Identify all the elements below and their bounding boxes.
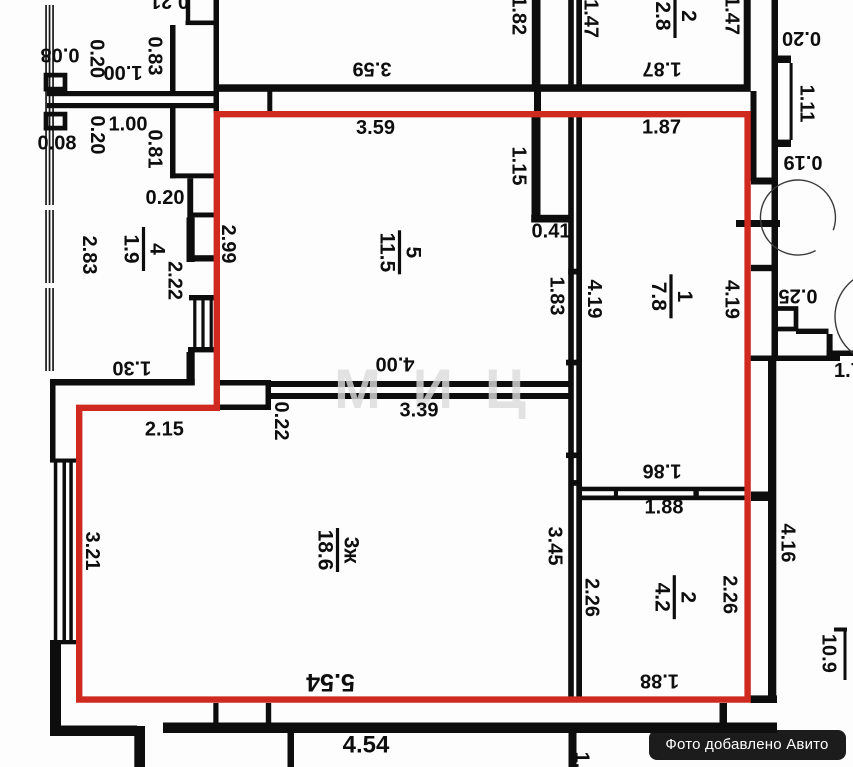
svg-text:0.08: 0.08 bbox=[38, 132, 77, 154]
svg-text:3.59: 3.59 bbox=[353, 58, 392, 80]
room5/3zh double wall bottom line bbox=[270, 393, 570, 399]
walls top-middle bbox=[214, 0, 776, 699]
door ticks bbox=[751, 178, 777, 185]
svg-text:3.59: 3.59 bbox=[356, 117, 395, 139]
fraction bar 10.9 bbox=[844, 628, 847, 680]
svg-text:7.8: 7.8 bbox=[647, 282, 670, 312]
walls top-left bbox=[47, 0, 219, 386]
room2 top wall line2 bbox=[580, 496, 748, 501]
hatch bars bbox=[193, 300, 196, 348]
room label 5/11.5 (180) bbox=[375, 230, 424, 274]
svg-text:2.15: 2.15 bbox=[145, 418, 184, 440]
niche top wall bbox=[170, 173, 214, 178]
svg-text:10.9: 10.9 bbox=[818, 634, 840, 673]
svg-text:0.81: 0.81 bbox=[144, 130, 166, 169]
svg-text:1.88: 1.88 bbox=[640, 670, 679, 692]
svg-text:0.22: 0.22 bbox=[270, 402, 292, 441]
svg-text:4.54: 4.54 bbox=[343, 731, 390, 758]
wall beside red bbox=[751, 91, 757, 181]
svg-text:11.5: 11.5 bbox=[375, 232, 398, 272]
wall vertical x172 lower bbox=[170, 108, 176, 178]
bottom wall main bbox=[163, 723, 777, 734]
svg-text:1.11: 1.11 bbox=[796, 85, 818, 123]
wall stub x572 bbox=[569, 733, 577, 767]
door arc right edge bbox=[835, 271, 853, 363]
wall stub top bbox=[186, 0, 190, 25]
hatch bottom tick bbox=[188, 347, 214, 352]
svg-text:0.20: 0.20 bbox=[86, 116, 108, 155]
svg-text:1.47: 1.47 bbox=[721, 0, 743, 35]
jog rect right bbox=[266, 380, 272, 410]
svg-text:2.22: 2.22 bbox=[164, 261, 186, 300]
tick 0.41 bbox=[531, 215, 571, 223]
svg-text:0.21: 0.21 bbox=[150, 0, 189, 12]
svg-text:1.30: 1.30 bbox=[112, 357, 151, 379]
wall right of red y496 bbox=[751, 492, 775, 502]
svg-text:2: 2 bbox=[676, 591, 699, 603]
jog rect top bbox=[220, 380, 272, 386]
svg-text:1.15: 1.15 bbox=[508, 147, 530, 186]
niche square right bbox=[776, 309, 797, 330]
svg-text:1.7: 1.7 bbox=[834, 360, 853, 382]
shaft walls below red bbox=[568, 117, 574, 699]
wall v x139 bbox=[134, 726, 145, 767]
hatch top tick bbox=[189, 295, 214, 300]
window 1.11 line bbox=[790, 63, 793, 140]
svg-text:2.99: 2.99 bbox=[217, 225, 239, 264]
tick below red x723 bbox=[720, 703, 728, 729]
svg-text:2.8: 2.8 bbox=[651, 1, 674, 31]
svg-text:3.21: 3.21 bbox=[81, 532, 103, 571]
shaft wall above bbox=[568, 0, 574, 86]
room4 bottom wall bbox=[50, 379, 195, 386]
wall h y358 bbox=[749, 356, 840, 362]
door arc room1 bbox=[760, 180, 835, 255]
svg-text:5.54: 5.54 bbox=[306, 668, 355, 696]
room label 2/4.2 (180) bbox=[650, 575, 699, 619]
room2 wall connectors bbox=[614, 487, 618, 500]
svg-text:3.39: 3.39 bbox=[400, 399, 439, 421]
svg-text:1.86: 1.86 bbox=[643, 460, 682, 482]
tick x270 bbox=[267, 91, 272, 114]
svg-text:1.87: 1.87 bbox=[643, 58, 682, 80]
svg-text:4.2: 4.2 bbox=[650, 583, 673, 612]
svg-text:0.08: 0.08 bbox=[41, 44, 80, 66]
svg-text:1.83: 1.83 bbox=[546, 277, 568, 316]
svg-text:2.26: 2.26 bbox=[581, 578, 603, 617]
right wall lower bbox=[768, 356, 776, 702]
room label 4/1.9 (180) bbox=[119, 227, 168, 271]
wall horiz y22 bbox=[186, 21, 220, 26]
window 1.11 ticks bbox=[778, 56, 792, 64]
corridor wall bottom line bbox=[47, 103, 219, 108]
wall top right vertical bbox=[744, 0, 751, 91]
room label 2/2.8 vert fraction bbox=[651, 0, 700, 38]
connector red corner bbox=[751, 695, 778, 703]
svg-text:3.45: 3.45 bbox=[543, 527, 565, 566]
jog rect bottom bbox=[220, 405, 272, 411]
wall x536 top vertical bbox=[532, 0, 541, 86]
walls bottom bbox=[50, 703, 777, 767]
svg-text:4.16: 4.16 bbox=[777, 524, 799, 563]
svg-text:3ж: 3ж bbox=[339, 537, 362, 565]
red apartment outline bbox=[79, 114, 747, 699]
wall stub x290 bbox=[288, 733, 295, 767]
bottom wall left bbox=[50, 726, 137, 737]
wall vertical x190 lower bbox=[187, 352, 195, 385]
wall v x829 bbox=[827, 334, 833, 356]
svg-text:18.6: 18.6 bbox=[313, 530, 336, 571]
svg-text:4.00: 4.00 bbox=[376, 353, 415, 375]
walls bottom-left window bbox=[50, 385, 77, 726]
svg-text:1.9: 1.9 bbox=[119, 234, 142, 263]
svg-text:1.: 1. bbox=[571, 752, 593, 767]
svg-text:0.25: 0.25 bbox=[779, 285, 818, 307]
svg-text:5: 5 bbox=[401, 246, 424, 258]
svg-text:1.47: 1.47 bbox=[580, 0, 602, 38]
walls right side bbox=[720, 0, 853, 729]
stub x537 bbox=[534, 91, 541, 114]
ticks below red bottom bbox=[213, 703, 218, 726]
svg-text:0.41: 0.41 bbox=[532, 220, 571, 242]
svg-text:0.20: 0.20 bbox=[146, 187, 185, 209]
niche tick y215 bbox=[188, 213, 214, 218]
top main wall bbox=[214, 84, 751, 92]
svg-text:4.19: 4.19 bbox=[721, 280, 743, 319]
wall vertical x190 bbox=[187, 217, 195, 262]
room2 top wall line1 bbox=[580, 487, 748, 492]
shaft ticks bbox=[568, 269, 582, 275]
svg-text:1.88: 1.88 bbox=[645, 496, 684, 518]
right edge wall (continuous behind window) bbox=[772, 0, 779, 361]
svg-text:1.82: 1.82 bbox=[508, 0, 530, 35]
svg-text:2.83: 2.83 bbox=[78, 236, 100, 275]
wall vertical x216 bbox=[214, 0, 220, 113]
svg-text:0.19: 0.19 bbox=[784, 151, 823, 173]
avito watermark badge bbox=[649, 730, 846, 760]
svg-text:2: 2 bbox=[677, 10, 700, 22]
svg-text:0.20: 0.20 bbox=[782, 27, 821, 49]
svg-text:4: 4 bbox=[145, 243, 168, 255]
corridor wall top line bbox=[47, 91, 219, 96]
room5/3zh double wall top line bbox=[270, 381, 570, 387]
svg-text:4.19: 4.19 bbox=[583, 280, 605, 319]
wall vertical x172 upper bbox=[170, 25, 176, 96]
svg-text:1.00: 1.00 bbox=[109, 113, 148, 135]
tick y258 bbox=[187, 255, 215, 261]
svg-text:1.00: 1.00 bbox=[104, 61, 143, 83]
window left upper (triple thin lines) bbox=[44, 5, 55, 371]
wall x536 vertical bbox=[532, 117, 541, 217]
balcony door squares left bbox=[46, 75, 65, 89]
room label 1/7.8 (180) bbox=[647, 274, 696, 318]
svg-text:0.83: 0.83 bbox=[144, 37, 166, 76]
svg-text:1: 1 bbox=[673, 290, 696, 302]
svg-text:1.87: 1.87 bbox=[642, 116, 681, 138]
room label 3zh/18.6 (180) bbox=[313, 528, 362, 572]
wall h y353 to edge bbox=[827, 351, 853, 357]
niche vertical wall bbox=[187, 178, 193, 217]
svg-text:2.26: 2.26 bbox=[719, 575, 741, 614]
wall h y331 bbox=[796, 329, 829, 334]
